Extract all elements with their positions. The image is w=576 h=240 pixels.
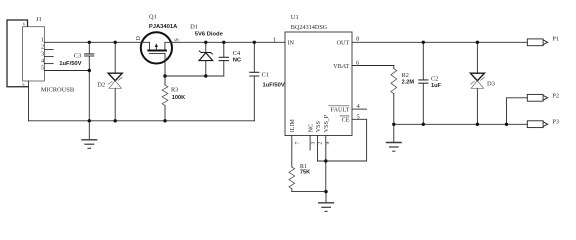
resistor R3 zigzag (162, 85, 168, 105)
TVS diode D3 top triangle (470, 73, 484, 81)
svg-text:1: 1 (166, 56, 168, 60)
wire C1 branch lower to left ground rail (253, 76, 255, 120)
svg-text:VSS: VSS (316, 121, 322, 132)
svg-text:100K: 100K (172, 95, 185, 101)
TVS diode D3 right zener tick (480, 77, 484, 80)
svg-text:5: 5 (41, 65, 44, 72)
capacitor C4 plates (219, 57, 229, 60)
wire VBUS rail Q1 source to U1 IN (171, 41, 285, 43)
connector P3 symbol (527, 121, 547, 128)
IC U1 body (285, 32, 352, 136)
svg-text:1: 1 (273, 36, 276, 43)
wire C4 branch upper (223, 42, 225, 57)
svg-text:IN: IN (288, 40, 295, 47)
svg-text:2.2M: 2.2M (402, 80, 415, 86)
svg-text:6: 6 (23, 83, 25, 87)
node right rail C2 junction (422, 123, 425, 126)
wire D2 branch lower to ground rail (114, 88, 116, 121)
svg-text:C4: C4 (233, 50, 241, 57)
svg-text:2: 2 (318, 142, 324, 145)
wire J1 shield to ground rail (28, 81, 30, 121)
wire C4 branch lower (223, 61, 225, 76)
svg-text:2: 2 (41, 44, 44, 51)
svg-text:5V6 Diode: 5V6 Diode (195, 32, 224, 38)
U1 ground symbol stem (325, 192, 327, 203)
resistor R2 top lead (393, 66, 395, 69)
wire gate node to C4 bottom (165, 75, 224, 77)
svg-text:PJA3401A: PJA3401A (149, 24, 178, 30)
svg-text:8: 8 (356, 36, 359, 43)
resistor R2 bottom lead to right ground rail (393, 94, 395, 125)
svg-text:NC: NC (233, 57, 242, 63)
node right rail R2 junction (392, 123, 395, 126)
wire CE routing to VSS node (318, 119, 367, 161)
svg-text:1uF: 1uF (431, 83, 442, 89)
wire C3 branch lower to ground rail (88, 57, 90, 121)
Q1 channel bar (147, 50, 167, 52)
svg-text:S: S (173, 38, 180, 42)
wire VBAT to R2 (352, 65, 394, 67)
resistor R3 top lead (164, 76, 166, 85)
J1 pin 4 stub (44, 63, 53, 65)
Q1 gate wire down to node (164, 54, 166, 76)
svg-text:R3: R3 (171, 87, 178, 94)
svg-text:D: D (135, 36, 142, 41)
wire P2 to right ground rail (507, 98, 528, 125)
left ground symbol stem (88, 121, 90, 139)
Q1 substrate arrow (155, 46, 157, 51)
node VBUS D2 junction (114, 41, 117, 44)
node VSS CE junction (324, 159, 327, 162)
left ground symbol bars (81, 139, 97, 141)
svg-text:75K: 75K (300, 169, 310, 175)
TVS diode D3 bottom triangle (471, 81, 483, 89)
svg-text:6: 6 (23, 23, 25, 27)
R2 ground symbol bars (386, 142, 402, 144)
U1 pin NC stub (309, 136, 311, 151)
wire FAULT stub (352, 108, 367, 110)
svg-text:C1: C1 (262, 72, 270, 79)
zener diode D1 triangle (199, 53, 213, 61)
node OUT D3 junction (476, 41, 479, 44)
svg-text:D1: D1 (190, 24, 198, 31)
wire D1 branch lower to gate node (205, 61, 207, 76)
svg-text:1: 1 (41, 36, 44, 43)
resistor R1 bottom lead (292, 189, 326, 192)
U1 pin VSS_P stub down to ground node (325, 136, 327, 192)
wire J1 pin5 to C3 ground branch (44, 70, 89, 72)
svg-text:ILIM: ILIM (290, 119, 296, 133)
node gate R3 junction (163, 74, 166, 77)
R2 ground symbol stem (393, 124, 395, 142)
wire D3 branch lower (476, 88, 478, 124)
wire OUT rail U1 to P1 (352, 41, 527, 43)
node VBUS D1 junction (204, 41, 207, 44)
svg-text:OUT: OUT (337, 40, 350, 47)
svg-text:CE: CE (342, 117, 350, 124)
J1 pin 2 stub (44, 49, 53, 51)
U1 ground symbol bars (318, 202, 334, 204)
svg-text:U1: U1 (291, 14, 299, 21)
node ground rail D2 junction (114, 119, 117, 122)
node right rail P2 junction (505, 123, 508, 126)
resistor R3 bottom lead (164, 106, 166, 121)
node J1 pin5 junction (88, 69, 91, 72)
node OUT C2 junction (422, 41, 425, 44)
TVS diode D3 left zener tick (470, 81, 474, 84)
left ground rail (29, 120, 255, 122)
svg-text:3: 3 (310, 142, 316, 145)
svg-text:P2: P2 (552, 93, 559, 100)
wire D2 branch upper (114, 42, 116, 73)
wire C3 branch upper (88, 42, 90, 53)
svg-text:Q1: Q1 (149, 14, 157, 21)
node ground rail C3 junction (88, 119, 91, 122)
svg-text:VSS_P: VSS_P (324, 114, 330, 132)
node gate D1 junction (204, 74, 207, 77)
svg-text:FAULT: FAULT (331, 106, 350, 113)
svg-text:J1: J1 (36, 16, 42, 23)
capacitor C2 plates (418, 80, 428, 83)
node IN C1 junction (253, 41, 256, 44)
connector J1 body (23, 27, 45, 81)
TVS diode D2 left zener tick (108, 81, 112, 84)
wire C2 branch upper (422, 42, 424, 79)
svg-text:1uF/50V: 1uF/50V (263, 83, 285, 89)
TVS diode D2 bottom triangle (109, 81, 121, 89)
resistor R1 zigzag (289, 167, 295, 189)
U1 pin ILIM stub down to R1 (291, 136, 293, 168)
TVS diode D2 right zener tick (118, 77, 122, 80)
svg-text:1uF/50V: 1uF/50V (59, 61, 81, 67)
connector P1 symbol (527, 39, 547, 46)
svg-text:3: 3 (41, 51, 44, 58)
TVS diode D2 top triangle (108, 73, 122, 81)
wire C2 branch lower (422, 84, 424, 125)
Q1 source internal stub (165, 42, 171, 49)
Q1 drain internal stub (142, 42, 150, 49)
wire VBUS rail from J1 pin1 to Q1 drain (44, 41, 141, 43)
zener diode D1 cathode bar with bent ends (199, 51, 213, 55)
wire D3 branch upper (476, 42, 478, 73)
svg-text:C3: C3 (74, 52, 82, 59)
svg-text:P3: P3 (552, 119, 559, 126)
J1 shield bracket wire (7, 20, 29, 87)
svg-text:BQ24314DSG: BQ24314DSG (291, 24, 328, 31)
resistor R2 zigzag (391, 69, 397, 94)
U1 pin VSS stub down (317, 136, 319, 162)
capacitor C3 plates (84, 54, 94, 56)
svg-text:D2: D2 (97, 81, 105, 88)
wire C1 branch upper (253, 42, 255, 72)
right ground rail (394, 123, 528, 125)
svg-text:D3: D3 (487, 81, 495, 88)
svg-text:C2: C2 (431, 75, 438, 82)
Q1 gate bar (149, 53, 165, 55)
capacitor C1 plates (249, 72, 259, 76)
svg-text:NC: NC (308, 124, 314, 132)
wire D1 branch upper (205, 42, 207, 52)
svg-text:P1: P1 (552, 36, 559, 43)
connector P2 symbol (527, 94, 547, 101)
svg-text:7: 7 (294, 142, 300, 145)
node VBUS C3 junction (88, 41, 91, 44)
node U1 ground junction (324, 190, 327, 193)
svg-text:R2: R2 (402, 72, 409, 79)
svg-text:VBAT: VBAT (333, 63, 349, 70)
node VBUS C4 junction (222, 41, 225, 44)
svg-text:MICROUSB: MICROUSB (41, 87, 74, 94)
transistor Q1 circle (141, 32, 172, 63)
node right rail D3 junction (476, 123, 479, 126)
node ground rail R3 junction (163, 119, 166, 122)
J1 pin 3 stub (44, 56, 53, 58)
